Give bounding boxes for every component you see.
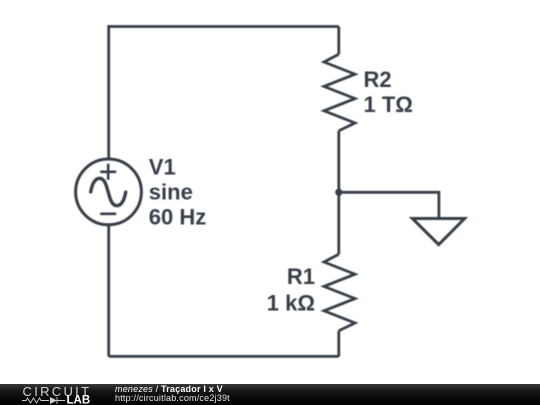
credit text bbox=[114, 383, 116, 385]
resistor R1 bbox=[324, 254, 355, 331]
footer bar bbox=[0, 384, 540, 405]
wire R1 bottom lead bbox=[337, 331, 340, 357]
wire bottom from V1 to R1 branch bbox=[109, 355, 339, 358]
node junction dot bbox=[335, 189, 342, 196]
wire left top (V1 positive lead) bbox=[107, 25, 110, 159]
svg-text:V1: V1 bbox=[149, 154, 176, 179]
svg-text:sine: sine bbox=[149, 180, 193, 205]
wire left bottom (V1 negative lead) bbox=[107, 225, 110, 357]
svg-text:1 kΩ: 1 kΩ bbox=[267, 290, 315, 315]
wire R2 bottom lead to node bbox=[337, 131, 340, 193]
svg-text:1 TΩ: 1 TΩ bbox=[364, 92, 413, 117]
ground symbol bbox=[412, 219, 464, 245]
svg-text:LAB: LAB bbox=[67, 395, 91, 405]
label R2 bbox=[364, 67, 413, 117]
CircuitLab logo bbox=[22, 385, 97, 404]
svg-text:R2: R2 bbox=[364, 67, 392, 92]
wire node to ground bbox=[339, 192, 439, 218]
wire top from V1 to R2 branch bbox=[109, 25, 339, 28]
wire R2 top lead bbox=[337, 27, 340, 55]
wire node to R1 top lead bbox=[337, 192, 340, 254]
label V1 bbox=[149, 154, 206, 229]
voltage source V1 bbox=[76, 159, 142, 225]
svg-text:R1: R1 bbox=[287, 264, 315, 289]
label R1 bbox=[267, 264, 315, 315]
svg-text:60 Hz: 60 Hz bbox=[149, 205, 206, 230]
resistor R2 bbox=[324, 54, 355, 131]
